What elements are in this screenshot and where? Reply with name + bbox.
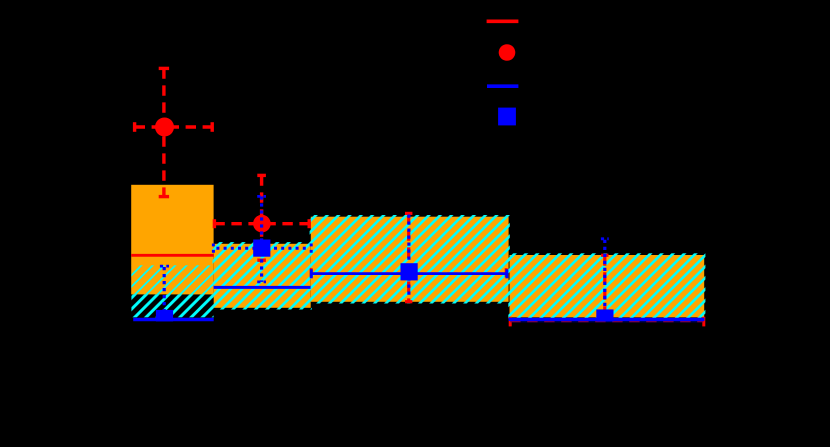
band bin4 hatch over fill (510, 255, 705, 317)
red solid line bin1 (131, 254, 213, 257)
blue dotted x-errorbar bin2 (213, 244, 311, 254)
blue square bin3 (401, 263, 418, 280)
band bin2 orange (214, 244, 311, 308)
legend red circle (499, 44, 516, 61)
red errorbar h bin3 (311, 268, 506, 277)
red errorbar h bin1 (135, 122, 213, 132)
legend blue square (498, 108, 516, 126)
blue dotted errorbar bin2 (257, 196, 266, 282)
band bin4 hatch (extends past fill) (508, 253, 705, 318)
red circle bin2 (253, 215, 271, 233)
blue line bin4 (509, 318, 705, 321)
band B bin1 hatch over black (131, 294, 213, 317)
blue dotted errorbar bin1 (160, 266, 169, 310)
blue square bin1 (clipped at axis) (156, 310, 173, 322)
legend red line (487, 19, 519, 23)
blue line bin2 (214, 286, 311, 289)
red errorbar v bin3 (405, 213, 412, 301)
band bin3 hatch over fill (311, 217, 509, 302)
blue dotted errorbar bin3 (407, 215, 410, 299)
blue dotted errorbar bin4 (601, 239, 609, 314)
band A bin1 orange box (131, 185, 213, 295)
blue square bin2 (253, 240, 270, 257)
dark overlay on red sliver under bin4 blue line (510, 321, 703, 323)
blue line bin1 (133, 318, 214, 322)
band bin4 orange (510, 255, 705, 317)
band bin3 orange (311, 217, 509, 302)
red errorbar h bin2 (214, 219, 309, 228)
red circle bin1 (155, 118, 174, 137)
red errorbar v bin1 (159, 68, 169, 196)
band B bin1 hatch over orange (131, 265, 213, 294)
band bin2 hatch over fill (214, 244, 311, 308)
band bin2 hatch (extends past fill) (213, 242, 312, 309)
blue square bin4 (clipped at axis) (596, 309, 613, 321)
legend blue line (487, 84, 518, 88)
red errorbar v bin4 (601, 255, 608, 321)
band bin3 hatch (extends past fill) (310, 215, 510, 304)
red errorbar h bin4 (510, 317, 704, 327)
blue line bin3 with caps (311, 269, 507, 278)
red errorbar v bin2 (257, 175, 266, 260)
